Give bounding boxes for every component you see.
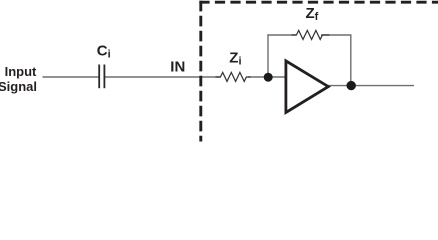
wire: Zi resistor to op-amp input — [248, 76, 286, 78]
wire: op-amp output to right edge — [328, 85, 415, 87]
svg-text:Signal: Signal — [0, 79, 37, 94]
wire: feedback top right horizontal — [321, 34, 352, 36]
resistor Zi — [216, 72, 251, 81]
node: junction dot at op-amp output — [347, 81, 356, 90]
wire: feedback top left horizontal — [267, 34, 296, 36]
svg-text:Input: Input — [5, 64, 37, 79]
node: junction dot at op-amp input — [264, 73, 273, 82]
wire: feedback left vertical (node to Zf) — [267, 35, 269, 78]
wire: capacitor to Zi resistor — [105, 76, 221, 78]
wire: input signal to capacitor — [43, 76, 99, 78]
op-amp U1 — [286, 61, 328, 113]
capacitor Ci — [99, 65, 104, 89]
wire: feedback right vertical (Zf to output node) — [350, 35, 352, 86]
svg-text:IN: IN — [170, 58, 185, 75]
dashed boundary left edge — [199, 1, 202, 142]
dashed boundary top edge — [199, 1, 438, 4]
resistor Zf — [292, 30, 330, 39]
